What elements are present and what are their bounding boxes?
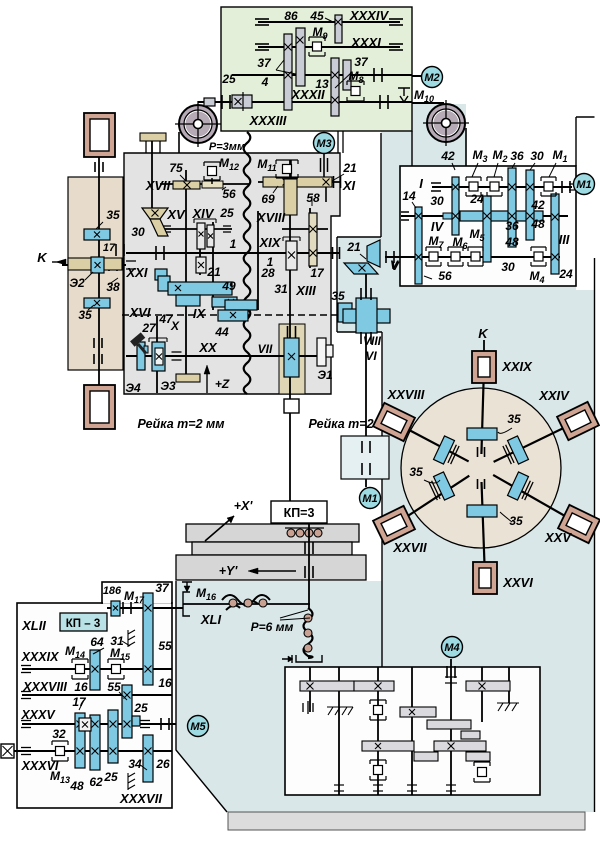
- svg-text:XIII: XIII: [295, 283, 316, 298]
- svg-text:75: 75: [169, 161, 183, 175]
- svg-text:48: 48: [504, 235, 519, 249]
- svg-text:M3: M3: [316, 138, 331, 150]
- svg-text:Э2: Э2: [69, 276, 85, 290]
- svg-text:25: 25: [219, 206, 234, 220]
- svg-text:XVIII: XVIII: [256, 210, 286, 225]
- svg-text:69: 69: [261, 192, 275, 206]
- svg-text:XIX: XIX: [259, 235, 282, 250]
- svg-text:24: 24: [558, 267, 573, 281]
- svg-text:XXVII: XXVII: [392, 540, 427, 555]
- svg-text:42: 42: [530, 198, 545, 212]
- svg-text:XI: XI: [342, 178, 356, 193]
- svg-text:P=6 мм: P=6 мм: [251, 620, 294, 634]
- svg-text:42: 42: [440, 149, 455, 163]
- svg-text:XVII: XVII: [145, 178, 171, 193]
- svg-text:VII: VII: [258, 342, 273, 356]
- svg-text:34: 34: [128, 757, 142, 771]
- svg-text:49: 49: [221, 279, 236, 293]
- svg-text:K: K: [37, 250, 48, 265]
- svg-text:IX: IX: [193, 306, 207, 321]
- svg-text:25: 25: [103, 770, 118, 784]
- svg-text:30: 30: [530, 149, 544, 163]
- svg-text:IV: IV: [431, 219, 445, 234]
- svg-text:XV: XV: [166, 207, 186, 222]
- svg-text:56: 56: [222, 187, 236, 201]
- svg-text:XXIX: XXIX: [501, 359, 533, 374]
- svg-text:55: 55: [107, 680, 121, 694]
- svg-text:XXXII: XXXII: [290, 87, 325, 102]
- svg-text:36: 36: [510, 149, 524, 163]
- svg-text:64: 64: [90, 635, 104, 649]
- svg-text:VIII: VIII: [363, 334, 382, 348]
- svg-text:36: 36: [505, 219, 519, 233]
- svg-text:XXVI: XXVI: [502, 575, 533, 590]
- svg-text:25: 25: [133, 701, 148, 715]
- svg-text:35: 35: [78, 308, 92, 322]
- svg-text:1: 1: [230, 237, 237, 251]
- svg-text:17: 17: [72, 695, 87, 709]
- svg-text:26: 26: [155, 757, 170, 771]
- svg-text:XXXI: XXXI: [350, 35, 381, 50]
- svg-text:I: I: [419, 176, 423, 191]
- svg-text:48: 48: [69, 779, 84, 793]
- svg-text:35: 35: [507, 412, 521, 426]
- svg-text:25: 25: [221, 72, 236, 86]
- svg-text:X: X: [170, 319, 180, 333]
- svg-text:24: 24: [469, 192, 484, 206]
- svg-text:КП – 3: КП – 3: [66, 618, 100, 630]
- svg-text:Э3: Э3: [160, 379, 176, 393]
- svg-text:+X': +X': [234, 499, 254, 513]
- svg-text:XXVIII: XXVIII: [387, 387, 425, 402]
- svg-text:37: 37: [257, 56, 272, 70]
- svg-text:31: 31: [274, 282, 288, 296]
- svg-text:M5: M5: [190, 721, 206, 733]
- svg-text:16: 16: [158, 676, 172, 690]
- svg-text:Э1: Э1: [317, 368, 333, 382]
- svg-text:XIV: XIV: [192, 206, 215, 221]
- svg-text:48: 48: [530, 217, 545, 231]
- svg-text:XVI: XVI: [129, 305, 151, 320]
- svg-text:44: 44: [214, 325, 229, 339]
- svg-text:45: 45: [309, 9, 324, 23]
- svg-text:37: 37: [155, 581, 170, 595]
- svg-text:XXXVII: XXXVII: [119, 791, 162, 806]
- svg-text:P=3мм: P=3мм: [209, 141, 245, 153]
- svg-text:55: 55: [158, 639, 172, 653]
- svg-text:21: 21: [346, 240, 361, 254]
- svg-text:16: 16: [74, 680, 88, 694]
- svg-text:XLII: XLII: [21, 618, 46, 633]
- svg-text:+Z: +Z: [215, 377, 230, 391]
- svg-text:56: 56: [438, 269, 452, 283]
- svg-text:КП=3: КП=3: [284, 506, 315, 520]
- svg-text:17: 17: [103, 242, 116, 254]
- svg-text:XXXIV: XXXIV: [349, 8, 390, 23]
- svg-text:30: 30: [501, 260, 515, 274]
- svg-text:+Y': +Y': [219, 564, 239, 578]
- svg-text:XXI: XXI: [126, 265, 148, 280]
- svg-text:K: K: [478, 326, 489, 341]
- svg-text:XXXV: XXXV: [20, 708, 56, 722]
- svg-text:21: 21: [342, 161, 357, 175]
- svg-text:38: 38: [106, 280, 120, 294]
- svg-text:35: 35: [106, 208, 120, 222]
- svg-text:XXXVIII: XXXVIII: [22, 680, 67, 694]
- svg-text:M4: M4: [444, 642, 459, 654]
- svg-text:VI: VI: [365, 349, 377, 363]
- svg-text:37: 37: [354, 55, 369, 69]
- svg-text:62: 62: [89, 775, 103, 789]
- svg-text:28: 28: [260, 266, 275, 280]
- svg-text:XXIV: XXIV: [538, 388, 570, 403]
- svg-text:32: 32: [52, 727, 66, 741]
- svg-text:30: 30: [131, 225, 145, 239]
- svg-text:XXXIII: XXXIII: [249, 113, 287, 128]
- svg-text:186: 186: [103, 585, 122, 597]
- svg-text:58: 58: [306, 191, 320, 205]
- svg-text:M2: M2: [424, 72, 439, 84]
- svg-text:Рейка m=2 мм: Рейка m=2 мм: [137, 417, 224, 431]
- svg-text:XXV: XXV: [544, 530, 572, 545]
- svg-text:XX: XX: [198, 340, 218, 355]
- svg-text:III: III: [559, 232, 570, 247]
- svg-text:XLI: XLI: [200, 612, 222, 627]
- svg-text:M1: M1: [576, 179, 591, 191]
- svg-text:86: 86: [284, 9, 298, 23]
- svg-text:21: 21: [206, 265, 221, 279]
- svg-text:XXXIX: XXXIX: [21, 650, 59, 664]
- svg-text:35: 35: [409, 465, 423, 479]
- svg-text:27: 27: [141, 321, 157, 335]
- svg-text:V: V: [390, 258, 399, 272]
- svg-text:Э4: Э4: [125, 381, 141, 395]
- svg-text:M1: M1: [362, 493, 377, 505]
- svg-text:30: 30: [430, 194, 444, 208]
- svg-text:35: 35: [331, 289, 345, 303]
- svg-text:17: 17: [310, 266, 325, 280]
- svg-text:4: 4: [261, 75, 269, 89]
